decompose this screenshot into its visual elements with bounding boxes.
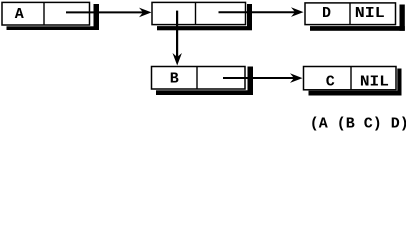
wire cell B cdr to cell C bbox=[223, 77, 297, 79]
cons cell B shadow bbox=[156, 67, 253, 96]
cell C divider bbox=[350, 67, 352, 90]
svg-text:D: D bbox=[322, 5, 331, 22]
cell D shadow bbox=[310, 5, 405, 31]
arrowhead into cell C bbox=[290, 73, 303, 83]
svg-text:NIL: NIL bbox=[355, 5, 385, 22]
cons cell 1 box bbox=[2, 2, 90, 25]
svg-text:(A (B C) D): (A (B C) D) bbox=[310, 116, 406, 133]
svg-text:B: B bbox=[170, 71, 179, 88]
wire cell2 cdr to cell D bbox=[219, 11, 299, 13]
arrowhead into cell B bbox=[173, 53, 182, 66]
cell D divider bbox=[349, 3, 351, 25]
cons cell 2 shadow bbox=[157, 4, 252, 30]
cell C box bbox=[304, 67, 397, 90]
cons cell B divider bbox=[196, 67, 198, 90]
cell C shadow bbox=[309, 69, 402, 96]
cons cell B box bbox=[152, 67, 246, 90]
wire cell1 cdr to cell2 bbox=[66, 11, 146, 13]
arrowhead into cell2 bbox=[139, 8, 152, 18]
cons cell 1 shadow bbox=[7, 4, 100, 30]
cons cell 2 box bbox=[152, 2, 246, 24]
cons cell 1 divider bbox=[43, 2, 45, 25]
cons cell 2 divider bbox=[195, 2, 197, 24]
cell D box bbox=[305, 3, 396, 25]
arrowhead into cell D bbox=[291, 7, 304, 17]
svg-text:A: A bbox=[15, 6, 24, 23]
wire cell2 car down to cell B bbox=[176, 11, 178, 60]
svg-text:C: C bbox=[326, 74, 335, 91]
svg-text:NIL: NIL bbox=[360, 73, 389, 90]
